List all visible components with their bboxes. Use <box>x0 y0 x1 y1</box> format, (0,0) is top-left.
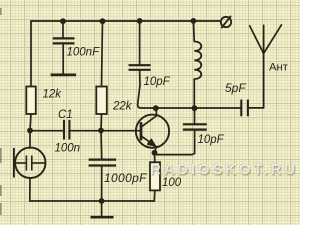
capacitor 1000pF plates <box>89 160 117 166</box>
wire coil bottom lead <box>193 79 195 108</box>
node rail-10pF1 <box>137 18 143 24</box>
wire 22k bottom lead <box>100 114 103 131</box>
capacitor C1 plates <box>64 120 69 140</box>
ground bar under 100nF <box>51 74 77 77</box>
watermark RADIOSKOT.RU <box>150 161 300 178</box>
capacitor 10pF upper plates <box>129 65 151 70</box>
antenna symbol <box>249 24 281 53</box>
resistor R 22k <box>96 87 107 115</box>
node rail-100nF <box>60 18 66 24</box>
svg-text:22k: 22k <box>112 101 133 113</box>
wire ground stub center <box>101 201 103 216</box>
microphone inner capacitor symbol <box>15 155 45 170</box>
wire 100nF top lead <box>62 21 64 37</box>
svg-text:5pF: 5pF <box>225 81 246 95</box>
wire left branch top (rail corner down to R 12k) <box>30 21 32 87</box>
resistor R 100 <box>150 162 160 190</box>
svg-text:Ант: Ант <box>269 61 288 73</box>
node coil-10pF2-5pF <box>192 105 198 111</box>
capacitor 10pF lower plates <box>183 124 207 129</box>
supply terminal circle with slash <box>221 17 231 27</box>
wire top supply rail <box>31 20 221 22</box>
wire 100nF bottom lead to ground <box>62 44 64 73</box>
resistor R 12k <box>26 87 36 115</box>
wire 22k top lead <box>102 21 103 87</box>
wire 10pF2 bottom lead to emitter node <box>155 131 195 155</box>
wire collector stub <box>155 108 158 115</box>
wire 5pF right lead to antenna riser <box>248 25 264 108</box>
transistor emitter arrow <box>148 139 156 146</box>
svg-text:10pF: 10pF <box>144 76 171 88</box>
node base left <box>27 128 33 134</box>
node collector <box>153 105 159 111</box>
microphone left bar <box>13 148 15 178</box>
transistor emitter line <box>141 136 156 153</box>
svg-text:10pF: 10pF <box>198 134 225 146</box>
wire coil top lead <box>192 21 195 42</box>
wire base node to C1 <box>30 130 63 132</box>
ground bar center bottom <box>91 216 114 219</box>
svg-text:C1: C1 <box>58 109 73 121</box>
svg-text:100nF: 100nF <box>67 47 101 59</box>
transistor Q1 circle <box>136 115 169 148</box>
wire R 100 bottom to ground rail <box>153 190 156 201</box>
wire 1000pF top lead <box>100 131 103 159</box>
node ground rail center <box>99 198 105 204</box>
svg-text:12k: 12k <box>43 89 63 101</box>
capacitor 5pF plates <box>241 100 248 117</box>
node emitter <box>152 150 158 156</box>
svg-text:1000pF: 1000pF <box>104 171 147 185</box>
node base-22k-1000pF <box>98 128 104 134</box>
wire 1000pF bottom lead to ground rail <box>101 166 103 201</box>
wire 10pF1 bottom lead and collector node rail <box>138 71 242 108</box>
wire emitter node to R 100 <box>154 153 156 162</box>
junction node dots <box>27 18 197 204</box>
wire bottom ground rail <box>30 200 155 202</box>
inductor L coil <box>194 42 201 80</box>
node rail-22k <box>100 18 106 24</box>
transistor base bar <box>140 122 143 140</box>
wire 12k bottom to base node <box>30 114 31 131</box>
svg-text:100n: 100n <box>55 143 81 155</box>
wire microphone bottom to ground rail <box>29 178 31 201</box>
left edge scan artifacts <box>0 8 2 215</box>
node rail-coil <box>191 18 197 24</box>
wire C1 to transistor base <box>70 130 140 132</box>
wire 10pF2 top lead <box>194 108 196 123</box>
wire base node down to microphone <box>29 131 31 149</box>
wire 10pF1 top lead from rail <box>139 21 141 64</box>
microphone body circle <box>15 148 45 178</box>
svg-text:100: 100 <box>162 177 182 189</box>
transistor collector line <box>141 115 157 127</box>
capacitor 100nF plates <box>53 38 75 43</box>
